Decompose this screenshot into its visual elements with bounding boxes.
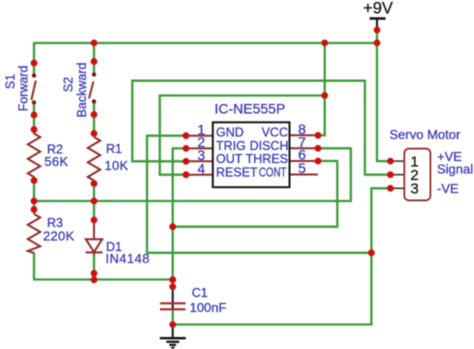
svg-text:100nF: 100nF — [190, 300, 227, 315]
svg-text:RESET: RESET — [216, 165, 258, 179]
svg-text:DISCH: DISCH — [250, 139, 289, 153]
svg-text:Signal: Signal — [437, 162, 473, 177]
svg-text:Forward: Forward — [16, 66, 30, 112]
svg-text:TRIG: TRIG — [216, 139, 246, 153]
svg-text:CONT: CONT — [259, 165, 287, 179]
svg-text:Backward: Backward — [75, 63, 89, 118]
svg-text:C1: C1 — [192, 286, 208, 300]
svg-text:56K: 56K — [44, 154, 68, 169]
svg-text:THRES: THRES — [246, 152, 288, 166]
svg-text:5: 5 — [298, 160, 306, 176]
svg-text:Servo Motor: Servo Motor — [390, 127, 461, 142]
svg-text:220K: 220K — [43, 229, 75, 244]
svg-text:10K: 10K — [105, 158, 129, 173]
svg-text:VCC: VCC — [262, 126, 288, 140]
svg-text:OUT: OUT — [216, 152, 243, 166]
svg-text:IC-NE555P: IC-NE555P — [215, 101, 286, 117]
svg-text:S2: S2 — [61, 77, 75, 92]
svg-text:GND: GND — [216, 126, 244, 140]
svg-text:3: 3 — [410, 181, 418, 198]
svg-text:+9V: +9V — [363, 0, 393, 18]
svg-text:R1: R1 — [106, 142, 122, 156]
svg-text:-VE: -VE — [437, 181, 459, 196]
svg-text:IN4148: IN4148 — [106, 251, 150, 266]
svg-text:4: 4 — [197, 160, 205, 176]
